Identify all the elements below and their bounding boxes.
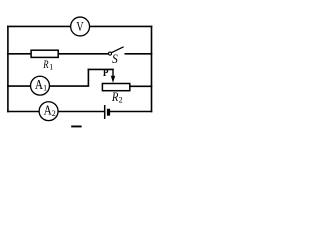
wiper P arrow — [103, 68, 115, 83]
battery — [105, 105, 110, 119]
svg-text:S: S — [112, 51, 118, 66]
wire row2 left — [7, 53, 31, 55]
svg-text:R: R — [42, 57, 48, 71]
wire row3 left — [7, 85, 31, 87]
wire left vertical — [7, 26, 9, 113]
switch S — [109, 47, 124, 66]
wire ammeter A1 to wiper riser — [50, 85, 89, 87]
svg-text:R: R — [111, 89, 118, 104]
svg-text:1: 1 — [49, 63, 53, 72]
svg-text:1: 1 — [43, 83, 47, 92]
svg-text:P: P — [103, 68, 109, 79]
wire right vertical — [151, 26, 153, 113]
ammeter A1 — [31, 76, 50, 95]
svg-text:2: 2 — [52, 109, 56, 118]
svg-text:2: 2 — [119, 96, 123, 105]
voltmeter V — [71, 17, 90, 36]
caption mark — [71, 126, 81, 128]
wire wiper riser vertical — [87, 69, 89, 86]
ammeter A2 — [39, 102, 58, 121]
resistor R1 — [31, 50, 58, 71]
rheostat R2 — [102, 84, 129, 105]
wire bottom left — [7, 111, 39, 113]
wire voltmeter to top right — [90, 25, 153, 27]
wire resistor R1 to switch — [58, 53, 108, 55]
wire battery to right vertical — [110, 111, 152, 113]
wire switch to right vertical — [125, 53, 153, 55]
wire wiper horizontal — [88, 68, 114, 70]
wire top left to voltmeter — [7, 25, 71, 27]
wire ammeter A2 to battery — [58, 111, 104, 113]
wire rheostat R2 to right vertical — [130, 85, 153, 87]
svg-text:V: V — [76, 19, 83, 34]
